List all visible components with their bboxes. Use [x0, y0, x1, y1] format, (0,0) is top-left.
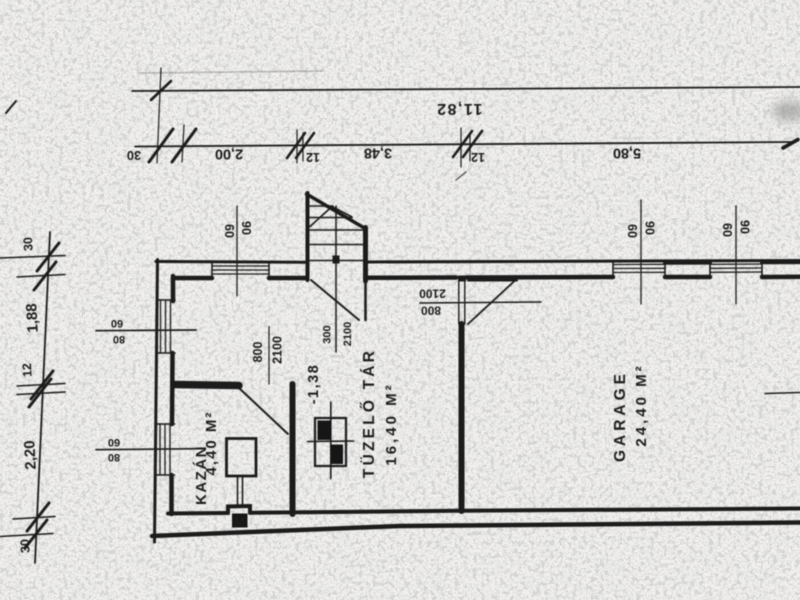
- dimension line L2: [135, 142, 792, 147]
- svg-text:80: 80: [108, 451, 120, 463]
- top wall pier x665-710: [665, 275, 710, 280]
- top wall inner segment x269-306: [269, 276, 306, 281]
- label 12 (x478): [471, 150, 485, 164]
- room label KAZAN: [193, 411, 220, 505]
- svg-text:2,20: 2,20: [21, 440, 40, 470]
- svg-text:24,40 M²: 24,40 M²: [633, 363, 650, 446]
- label 2,20: [21, 440, 40, 470]
- left wall outer: [155, 260, 158, 543]
- wall kazan/tuzelo: [290, 384, 296, 514]
- window tuzelo top (212-269): [212, 266, 269, 274]
- svg-text:60: 60: [222, 224, 236, 238]
- label 300/2100: [321, 322, 354, 346]
- svg-text:12: 12: [306, 150, 320, 164]
- label 11,82 (rotated 180): [436, 100, 483, 117]
- double tick L2 x462: [453, 131, 472, 157]
- left vertical dimension line: [35, 232, 50, 563]
- boiler rectangle: [227, 439, 257, 477]
- svg-text:30: 30: [18, 539, 33, 554]
- svg-text:800: 800: [251, 342, 265, 363]
- label 1,88: [23, 303, 42, 333]
- top wall inner segment x176-212: [176, 276, 212, 281]
- stairs: left vertical: [306, 193, 310, 280]
- smudge top right: [772, 101, 800, 121]
- extension lines x297 x303: [296, 130, 298, 163]
- label 800 (garage door, upside down): [421, 303, 441, 317]
- double tick L2 x295: [287, 133, 305, 158]
- extension line x183: [182, 125, 184, 162]
- svg-text:4,40 M²: 4,40 M²: [203, 411, 220, 476]
- level label -1,38: [306, 364, 322, 405]
- tick t1 y258: [0, 256, 65, 259]
- top wall inner segment x368-456: [368, 275, 456, 280]
- left wall inner pier (bottom): [169, 475, 174, 514]
- faint ghost line top: [140, 71, 322, 73]
- left wall window W1 (300-353): [161, 300, 171, 353]
- label 12 (left): [20, 363, 35, 378]
- svg-text:11,82: 11,82: [436, 100, 483, 117]
- tick slash L2 x160: [149, 129, 173, 162]
- stray mark left edge: [6, 101, 16, 113]
- stove cross vertical: [330, 402, 332, 479]
- svg-text:80: 80: [113, 333, 125, 345]
- tick slash L2 x183: [172, 129, 196, 162]
- label 80/60 W1: [111, 317, 125, 345]
- stove rectangle: [315, 418, 346, 466]
- tick t3 y385: [17, 384, 65, 387]
- svg-text:1,88: 1,88: [23, 303, 42, 333]
- svg-text:90: 90: [239, 221, 253, 235]
- wall tuzelo/garage (solid part): [459, 324, 465, 511]
- bottom wall inner line (right of notch): [250, 509, 800, 513]
- chimney flue black square: [232, 514, 248, 528]
- garage window A (613-665): [613, 264, 665, 272]
- svg-text:90: 90: [643, 221, 657, 235]
- window axis garage A: [640, 200, 642, 304]
- label 90/60 garage A: [625, 221, 657, 238]
- extension line at x=160: [157, 68, 161, 163]
- tick t5 y518: [13, 517, 55, 520]
- svg-text:30: 30: [21, 237, 36, 252]
- left wall inner pier (middle): [170, 353, 175, 424]
- junction blob top of garage wall: [458, 276, 466, 282]
- top wall outer line (right of stairs): [368, 261, 800, 263]
- top wall inner segment x467-613: [467, 275, 613, 280]
- svg-text:TÜZELŐ TÁR: TÜZELŐ TÁR: [360, 348, 378, 478]
- window axis tuzelo: [236, 206, 238, 296]
- stair center line: [335, 206, 337, 352]
- wall tuzelo/garage door opening thin lines: [458, 281, 460, 324]
- garage door leader: [420, 302, 541, 303]
- tick t4 y393: [17, 392, 65, 395]
- label 800/2100 kazan door: [251, 336, 285, 364]
- top wall outer line (left of stairs): [156, 260, 306, 264]
- garage window B (710-762): [710, 264, 762, 272]
- kazan north wall: [174, 385, 239, 386]
- label 30 (L2): [127, 148, 141, 163]
- svg-text:5,80: 5,80: [613, 145, 641, 161]
- scribble near x460: [456, 172, 466, 180]
- svg-text:12: 12: [20, 363, 35, 378]
- dimension line L1 (top, 11.82): [132, 87, 800, 91]
- kazan door swing: [239, 388, 288, 434]
- kazan door axis: [268, 327, 270, 385]
- left wall inner pier (corner): [171, 276, 176, 301]
- stairs: top diagonal: [307, 194, 367, 229]
- svg-text:3,48: 3,48: [364, 145, 392, 161]
- label 2,00: [215, 146, 243, 162]
- left wall window W2 (424-475): [160, 424, 170, 475]
- svg-text:90: 90: [738, 220, 752, 234]
- room label TUZELO TAR: [360, 348, 400, 478]
- label 90/60 garage B: [720, 220, 752, 237]
- svg-text:12: 12: [471, 150, 485, 164]
- svg-text:-1,38: -1,38: [306, 364, 322, 405]
- stove cross horizontal: [308, 440, 354, 443]
- tick on L1: [151, 81, 171, 100]
- stair braces: [310, 207, 332, 227]
- svg-text:800: 800: [421, 303, 441, 317]
- svg-text:30: 30: [127, 148, 141, 163]
- label 30 (left bottom): [18, 539, 33, 554]
- svg-text:2,00: 2,00: [215, 146, 243, 162]
- room label GARAGE: [612, 363, 650, 462]
- stair center blob: [333, 256, 340, 264]
- label 2100 (garage door, upside down): [419, 286, 446, 300]
- bottom wall inner line (left of notch): [168, 511, 228, 516]
- leader W1: [96, 329, 196, 332]
- stairs right vertical below wall (door jamb): [364, 281, 367, 320]
- tick t2 y276: [17, 275, 65, 278]
- svg-text:16,40 M²: 16,40 M²: [383, 382, 400, 465]
- garage door swing: [468, 281, 515, 324]
- stove fill lower-right: [331, 445, 343, 465]
- window axis garage B: [735, 206, 737, 304]
- label 3,48: [364, 145, 392, 161]
- stairs: right vertical: [363, 228, 368, 282]
- label 30 (left top): [21, 237, 36, 252]
- svg-text:2100: 2100: [270, 336, 284, 364]
- label 90/60 tuzelo window: [222, 221, 253, 238]
- extension lines x461 x470: [460, 128, 462, 167]
- svg-text:60: 60: [111, 317, 123, 329]
- svg-text:M: M: [235, 515, 245, 529]
- label 12 (x313): [306, 150, 320, 164]
- svg-text:2100: 2100: [342, 322, 354, 346]
- boiler pipe: [237, 476, 239, 507]
- svg-text:60: 60: [108, 436, 120, 448]
- label 80/60 W2: [108, 436, 120, 463]
- door swing below stairs: [311, 280, 359, 320]
- stair rungs: [310, 206, 364, 261]
- svg-text:60: 60: [625, 224, 639, 238]
- arrow end of L2: [783, 140, 798, 149]
- svg-text:60: 60: [720, 223, 734, 237]
- tick t6 y535: [0, 534, 53, 537]
- svg-text:2100: 2100: [419, 286, 446, 300]
- leader W2: [96, 449, 200, 450]
- chimney notch: [228, 506, 250, 513]
- bottom wall outer line: [152, 523, 800, 537]
- stove fill upper-left: [318, 421, 331, 441]
- top-left corner outer: [156, 260, 176, 263]
- svg-text:300: 300: [321, 325, 333, 343]
- garage door leaf: [468, 280, 517, 282]
- label 5,80: [613, 145, 641, 161]
- top wall inner segment x762-800: [762, 275, 800, 280]
- right wall stub line: [765, 393, 800, 394]
- svg-text:GARAGE: GARAGE: [612, 370, 629, 462]
